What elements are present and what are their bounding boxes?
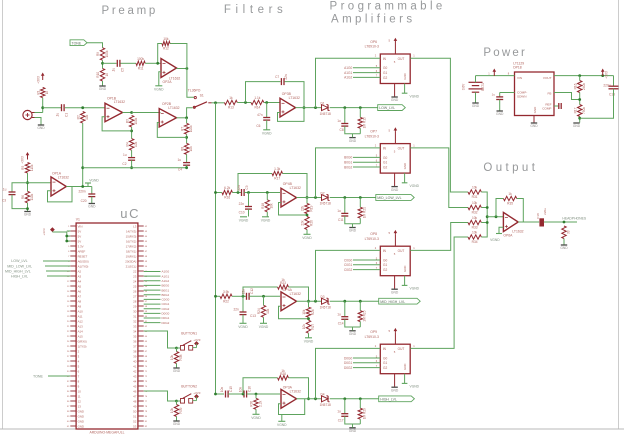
wire R38 gnd <box>176 348 178 368</box>
svg-text:41: 41 <box>133 364 137 368</box>
wire OP2B node to switch <box>187 108 193 118</box>
svg-text:20(SDA): 20(SDA) <box>125 259 136 263</box>
ground ic <box>530 123 538 128</box>
supply +3V3 BUTTON1 <box>193 338 201 347</box>
svg-text:D0G2: D0G2 <box>344 366 353 370</box>
svg-text:33: 33 <box>133 324 137 328</box>
svg-text:100k: 100k <box>134 117 138 124</box>
resistor R20 <box>301 217 314 230</box>
svg-text:D2: D2 <box>321 191 325 195</box>
resistor R17 <box>272 167 283 181</box>
op-amp OP4A <box>281 288 301 311</box>
ic gnd pin <box>533 116 535 123</box>
wire OP2B fb node <box>185 118 188 144</box>
wire C18 to headphones <box>544 221 577 224</box>
svg-text:C10: C10 <box>239 211 245 215</box>
resistor R24 <box>257 305 270 317</box>
svg-text:OP9: OP9 <box>370 330 377 334</box>
svg-text:R4: R4 <box>125 142 129 146</box>
op-amp OP2B <box>159 102 179 127</box>
svg-text:10k: 10k <box>302 324 306 330</box>
wire C8 to gnd <box>345 126 361 134</box>
svg-text:OUT: OUT <box>398 57 405 61</box>
wire R11 to OP2A <box>145 62 161 64</box>
svg-text:V1: V1 <box>76 217 80 221</box>
svg-text:GND: GND <box>403 73 407 79</box>
svg-text:GND: GND <box>37 126 45 130</box>
svg-text:51: 51 <box>133 414 137 418</box>
svg-text:GND: GND <box>349 429 357 433</box>
wire gnd stub r3 <box>352 327 354 331</box>
svg-text:B0G2: B0G2 <box>162 293 170 297</box>
ground row1 <box>349 138 357 143</box>
svg-text:VIN: VIN <box>78 224 83 228</box>
wire sum node <box>481 192 488 237</box>
supply +3V3 OP7 <box>388 127 397 143</box>
capacitor C15 <box>220 386 233 398</box>
supply VGND OP6A <box>490 234 502 242</box>
net label LOW_LVL <box>11 259 70 263</box>
svg-text:1k: 1k <box>45 91 49 95</box>
resistor R17 <box>573 105 586 117</box>
wire to box4 in <box>316 344 381 399</box>
capacitor C17 <box>337 409 348 422</box>
resistor R21 <box>358 207 367 218</box>
net label MID_HIGH_LVL <box>5 269 70 273</box>
svg-text:+3V3: +3V3 <box>37 76 41 84</box>
svg-text:C0G0: C0G0 <box>344 258 353 262</box>
svg-text:R11: R11 <box>138 67 144 71</box>
svg-text:A1G1: A1G1 <box>344 71 352 75</box>
capacitor C10 <box>239 202 252 215</box>
wire R2 down to vgnd rail <box>81 123 84 186</box>
svg-text:40: 40 <box>133 359 137 363</box>
svg-text:1N5718: 1N5718 <box>320 112 331 116</box>
wire R16 in <box>214 191 222 194</box>
svg-text:22n: 22n <box>239 202 245 206</box>
capacitor C12 <box>242 288 255 300</box>
net label TONE <box>33 374 70 378</box>
supply +3V3 OP9 <box>388 328 397 344</box>
svg-text:G2: G2 <box>383 268 387 272</box>
op-amp OP1B <box>105 97 125 122</box>
op-amp OP1A <box>51 172 69 197</box>
svg-text:A3: A3 <box>78 274 82 278</box>
gnd pin OP9 <box>391 374 399 393</box>
supply VGND OP2A <box>154 86 164 92</box>
svg-text:34: 34 <box>133 329 137 333</box>
net label HIGH_LVL <box>11 275 70 279</box>
svg-text:5V: 5V <box>78 239 82 243</box>
svg-text:GND: GND <box>391 388 399 392</box>
svg-text:100k: 100k <box>189 125 193 132</box>
svg-text:10k: 10k <box>189 146 193 152</box>
svg-text:BUTTON2: BUTTON2 <box>181 385 197 389</box>
wire C11 hang <box>344 198 346 214</box>
wire switch to node <box>212 101 225 104</box>
svg-text:G0: G0 <box>383 156 387 160</box>
svg-text:VGND: VGND <box>262 131 272 135</box>
wire R8 to C4 <box>186 154 188 162</box>
capacitor C8 <box>337 119 348 132</box>
svg-text:B0G1: B0G1 <box>344 161 352 165</box>
wire R21 <box>359 198 361 224</box>
svg-text:D1: D1 <box>321 101 325 105</box>
resistor R36 <box>562 226 571 239</box>
wire R24 <box>263 296 265 323</box>
svg-text:220u: 220u <box>603 84 610 88</box>
svg-text:A1G0: A1G0 <box>162 270 170 274</box>
title Amplifiers <box>331 13 415 25</box>
wire OP6A out <box>518 221 539 223</box>
svg-text:1u: 1u <box>337 119 341 123</box>
svg-text:C0G1: C0G1 <box>344 263 353 267</box>
resistor R22 <box>220 290 232 304</box>
supply VGND R27 <box>304 338 314 344</box>
resistor R18 <box>261 200 274 212</box>
svg-text:MID_HIGH_LVL: MID_HIGH_LVL <box>380 300 405 304</box>
svg-text:750k: 750k <box>582 107 586 114</box>
diode D2 <box>320 191 331 205</box>
op-amp OP2A <box>161 59 180 85</box>
title Preamp <box>102 5 158 17</box>
svg-text:GND: GND <box>533 107 537 113</box>
gain select pins OP8 <box>344 256 380 272</box>
ground under C20 <box>88 204 96 209</box>
resistor R38 <box>170 352 183 364</box>
svg-text:R27: R27 <box>311 324 315 330</box>
vgnd pin OP7 <box>402 173 420 188</box>
label LT1129 <box>513 61 524 69</box>
svg-text:DP18: DP18 <box>513 65 522 69</box>
wire uC to BUTTON1 <box>144 331 178 349</box>
op-amp OP3B <box>280 92 300 117</box>
label OP6 <box>365 40 379 49</box>
svg-text:3.6V: 3.6V <box>462 83 466 90</box>
svg-text:29: 29 <box>133 304 137 308</box>
wire vout <box>554 74 614 77</box>
svg-text:A10: A10 <box>78 309 84 313</box>
svg-text:R17: R17 <box>573 107 577 113</box>
svg-text:10k: 10k <box>302 309 306 315</box>
svg-text:5V: 5V <box>78 229 82 233</box>
wire D2 to flag <box>330 196 376 199</box>
svg-text:10k: 10k <box>472 231 478 235</box>
svg-text:53: 53 <box>133 424 137 428</box>
svg-text:A15: A15 <box>78 334 84 338</box>
svg-text:R34: R34 <box>472 240 478 244</box>
supply VGND R24 <box>259 323 269 329</box>
svg-text:1k: 1k <box>281 369 285 373</box>
title Filters <box>224 4 288 16</box>
svg-text:52: 52 <box>133 419 137 423</box>
svg-text:C18: C18 <box>536 213 540 219</box>
supply +3V3 R5 <box>21 152 30 164</box>
svg-text:GND: GND <box>173 369 181 373</box>
svg-text:OP6: OP6 <box>370 40 377 44</box>
svg-text:1k: 1k <box>281 278 285 282</box>
programmable amplifier OP9 <box>380 344 410 374</box>
svg-text:GND: GND <box>472 104 480 108</box>
svg-text:0(RX0): 0(RX0) <box>78 339 87 343</box>
svg-text:C6: C6 <box>256 124 260 128</box>
resistor R28 <box>278 369 289 380</box>
svg-text:1M R25: 1M R25 <box>363 310 367 321</box>
wire D3 to flag <box>330 300 379 303</box>
op-amp OP4B <box>281 182 301 207</box>
wire C11 to gnd <box>345 216 361 224</box>
wire to box1 in <box>316 54 381 108</box>
svg-text:49: 49 <box>133 404 137 408</box>
svg-text:B0G0: B0G0 <box>344 156 352 160</box>
svg-text:D0G2: D0G2 <box>162 321 170 325</box>
svg-text:22n: 22n <box>242 289 246 295</box>
supply VGND R20 <box>302 234 312 240</box>
svg-text:50: 50 <box>133 409 137 413</box>
svg-text:R35: R35 <box>507 202 513 206</box>
switch BUTTON2 <box>177 385 198 403</box>
wire C3 to bottom <box>12 195 28 209</box>
ground BUTTON1 <box>173 368 181 373</box>
svg-text:A13: A13 <box>78 324 84 328</box>
wire node to C5 <box>103 62 117 64</box>
svg-text:10k: 10k <box>270 203 274 209</box>
svg-text:VGND: VGND <box>302 236 312 240</box>
svg-text:10k: 10k <box>170 408 174 414</box>
wire C4 to rail <box>185 165 188 169</box>
supply VGND R18 <box>261 217 271 223</box>
svg-text:31: 31 <box>133 314 137 318</box>
svg-text:A4: A4 <box>78 279 82 283</box>
svg-text:14(TX3): 14(TX3) <box>126 229 136 233</box>
wire C13 to vgnd <box>242 315 244 323</box>
capacitor comp <box>492 93 504 100</box>
wire to C13 <box>613 76 615 86</box>
resistor R6 <box>21 191 34 203</box>
gain select pins OP7 <box>344 154 380 170</box>
svg-text:GND: GND <box>78 409 84 413</box>
svg-text:36: 36 <box>133 339 137 343</box>
wire vin <box>476 71 515 75</box>
svg-text:A1(TX0): A1(TX0) <box>78 264 89 268</box>
svg-text:LT1632: LT1632 <box>290 389 301 393</box>
svg-text:45: 45 <box>133 384 137 388</box>
ground R36 <box>560 245 568 250</box>
wire R5 to node <box>26 173 29 191</box>
svg-text:C14: C14 <box>338 321 344 325</box>
ic U1 LT1129 <box>515 72 555 116</box>
svg-text:R31: R31 <box>472 195 478 199</box>
svg-text:FB: FB <box>548 92 552 96</box>
wire R3-R4 node to minus <box>102 117 133 139</box>
wire C10 hang <box>248 193 250 207</box>
svg-text:28: 28 <box>133 299 137 303</box>
svg-text:1M R29: 1M R29 <box>363 408 367 419</box>
resistor R11 <box>136 57 145 71</box>
wire C6 hang <box>266 103 268 118</box>
svg-text:LT6910-3: LT6910-3 <box>365 237 379 241</box>
wire to box2 in <box>316 143 381 197</box>
resistor R19 <box>301 204 314 214</box>
svg-text:35: 35 <box>133 334 137 338</box>
net flag HIGH_LVL <box>379 396 415 402</box>
capacitor C20 <box>79 189 96 203</box>
label HEADPHONES <box>562 216 586 220</box>
svg-text:B0G1: B0G1 <box>162 288 170 292</box>
svg-text:VGND: VGND <box>304 339 314 343</box>
svg-text:G0: G0 <box>383 356 387 360</box>
svg-text:R38: R38 <box>179 354 183 360</box>
capacitor ref comp <box>554 103 561 109</box>
vgnd pin OP9 <box>402 374 420 389</box>
svg-text:G2: G2 <box>383 366 387 370</box>
svg-text:Output: Output <box>483 162 538 174</box>
wire gnd stub r4 <box>352 424 354 428</box>
svg-text:G1: G1 <box>383 361 387 365</box>
wire fb left vertical r2 <box>238 174 272 193</box>
wire OP2A plus to vgnd <box>159 72 161 86</box>
capacitor C14 <box>337 312 348 325</box>
svg-text:C0G2: C0G2 <box>162 307 170 311</box>
svg-text:LT1632: LT1632 <box>114 100 125 104</box>
capacitor C3 <box>2 188 16 203</box>
supply VGND C13 <box>238 323 248 329</box>
wire fb right r4 <box>288 378 310 400</box>
wire R15 <box>359 108 361 134</box>
svg-text:GND: GND <box>349 139 357 143</box>
svg-text:RESET: RESET <box>78 254 88 258</box>
svg-text:HIGH_LVL: HIGH_LVL <box>380 397 397 401</box>
svg-text:C2: C2 <box>122 162 126 166</box>
wire C9 out <box>244 191 280 194</box>
wire C16 out <box>242 393 280 396</box>
resistor R39 <box>170 405 183 417</box>
svg-text:1(TX0): 1(TX0) <box>78 344 87 348</box>
wire R18 <box>266 193 268 217</box>
svg-text:VGND: VGND <box>154 87 164 91</box>
svg-text:1u: 1u <box>492 93 496 97</box>
svg-text:A7: A7 <box>78 294 82 298</box>
wire R4 to C2 <box>131 150 133 157</box>
ic V1 ARDUINO-MEGAFULL box <box>76 217 138 434</box>
op-amp OP6A <box>503 212 523 237</box>
svg-text:GND: GND <box>78 414 84 418</box>
svg-text:D0G0: D0G0 <box>344 356 353 360</box>
svg-text:SDWN: SDWN <box>517 95 526 99</box>
wire fb right r2 <box>283 174 309 199</box>
svg-text:C13: C13 <box>250 314 256 318</box>
svg-text:C17: C17 <box>338 418 344 422</box>
svg-text:2.2k: 2.2k <box>258 400 262 406</box>
programmable amplifier OP8 <box>380 246 410 276</box>
supply +3V3 R1 <box>37 73 45 84</box>
svg-text:VGND: VGND <box>238 325 248 329</box>
svg-text:15(RX3): 15(RX3) <box>126 234 137 238</box>
wire C20 to gnd <box>91 197 93 203</box>
wire OP1A out <box>66 185 92 188</box>
capacitor C5 <box>112 60 125 72</box>
svg-text:10k: 10k <box>266 308 270 314</box>
svg-text:C7: C7 <box>275 75 279 79</box>
wire mic top <box>35 112 43 114</box>
wire C1 to OP1B <box>65 106 105 109</box>
wire node to OP1A <box>28 182 52 184</box>
wire OP4B out <box>297 196 322 199</box>
resistor R15 <box>358 117 367 128</box>
capacitor C4 <box>177 158 190 171</box>
wire C8 hang <box>344 108 346 124</box>
svg-text:44: 44 <box>133 379 137 383</box>
wire row4 in <box>214 393 224 396</box>
svg-text:42: 42 <box>133 369 137 373</box>
svg-text:A12: A12 <box>78 319 84 323</box>
svg-text:A2: A2 <box>78 269 82 273</box>
svg-text:R24: R24 <box>257 308 261 314</box>
svg-text:R17: R17 <box>274 177 280 181</box>
svg-text:R5: R5 <box>21 166 25 170</box>
wire C14 hang <box>344 301 346 316</box>
wire C17 to gnd <box>345 416 361 424</box>
svg-text:D0G0: D0G0 <box>162 312 170 316</box>
wire comp cap gnd <box>499 100 501 111</box>
svg-text:27: 27 <box>133 294 137 298</box>
svg-text:.1u: .1u <box>2 188 7 192</box>
wire fb <box>554 93 580 100</box>
svg-text:COMP: COMP <box>542 107 551 111</box>
svg-text:C12: C12 <box>250 288 254 294</box>
svg-text:GND: GND <box>573 124 581 128</box>
svg-text:32: 32 <box>133 319 137 323</box>
svg-text:MID_LOW_LVL: MID_LOW_LVL <box>377 196 401 200</box>
wire node to C3 <box>12 183 28 192</box>
svg-text:Filters: Filters <box>224 4 288 16</box>
resistor R16b <box>573 81 586 93</box>
svg-text:19(RX1): 19(RX1) <box>126 254 137 258</box>
wire R14 to opamp <box>264 101 280 104</box>
wire gnd stub r2 <box>352 224 354 228</box>
ic V1 pins <box>67 224 148 428</box>
svg-text:30: 30 <box>133 309 137 313</box>
svg-text:10k: 10k <box>472 186 478 190</box>
svg-text:D0G1: D0G1 <box>344 361 353 365</box>
svg-text:1u: 1u <box>337 209 341 213</box>
wire fb out <box>496 199 523 223</box>
svg-text:10k: 10k <box>170 355 174 361</box>
svg-text:A11: A11 <box>78 314 83 318</box>
gnd pin OP6 <box>391 84 399 103</box>
resistor R16 <box>222 186 233 200</box>
svg-text:38: 38 <box>133 349 137 353</box>
svg-text:TONE: TONE <box>72 41 82 45</box>
wire plus loop r3 <box>279 306 310 320</box>
supply +3V3 uC <box>42 227 55 235</box>
wire fb to minus <box>157 123 186 138</box>
svg-text:C9: C9 <box>245 185 249 189</box>
svg-text:HEADPHONES: HEADPHONES <box>562 216 586 220</box>
wires gain select nets <box>144 270 170 325</box>
svg-text:VGND: VGND <box>239 218 249 222</box>
wire box1 out <box>410 54 468 192</box>
svg-text:VOUT: VOUT <box>543 76 552 80</box>
svg-text:C0G1: C0G1 <box>162 302 170 306</box>
svg-text:MID_HIGH_LVL: MID_HIGH_LVL <box>5 269 31 273</box>
title uC <box>120 206 140 221</box>
svg-text:L3: L3 <box>133 224 137 228</box>
title Programmable <box>330 1 446 13</box>
svg-text:11: 11 <box>78 394 81 398</box>
svg-text:GND: GND <box>530 124 538 128</box>
wire comp pin <box>500 93 515 97</box>
